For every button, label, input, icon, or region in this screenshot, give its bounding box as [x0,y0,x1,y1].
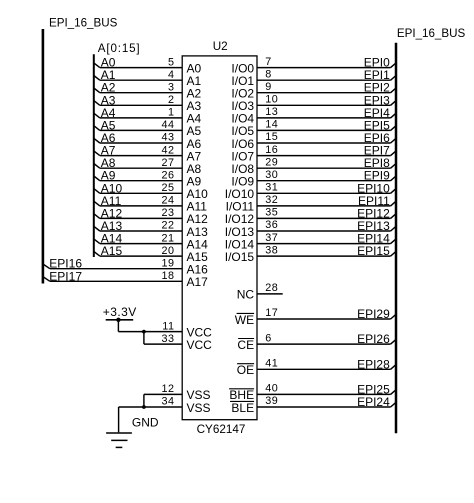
svg-text:16: 16 [265,144,278,156]
wire A5 [100,129,182,131]
svg-text:EPI26: EPI26 [357,332,390,346]
bus entry EPI13 [391,226,396,231]
wire EPI29 [257,318,391,320]
bus EPI_16_BUS (right vertical bus) [395,43,398,433]
bus entry EPI2 [391,88,396,93]
wire NC stub (pin 28, no connect) [257,293,283,295]
IC U2 body (CY62147 SRAM rectangle) [182,56,257,420]
wire GND drop [118,407,120,432]
svg-text:37: 37 [265,232,278,244]
svg-text:OE: OE [237,363,254,377]
svg-text:14: 14 [265,119,278,131]
svg-text:CY62147: CY62147 [197,423,246,436]
bus entry A12 [94,214,100,219]
bus entry EPI9 [391,176,396,181]
bus entry A5 [94,126,100,131]
wire EPI4 [257,117,391,119]
svg-text:15: 15 [265,131,278,143]
svg-text:U2: U2 [213,40,228,53]
svg-text:21: 21 [161,232,174,244]
bus entry EPI16 [43,264,50,269]
bus entry EPI4 [391,113,396,118]
svg-text:26: 26 [161,169,174,181]
ground GND symbol [106,433,132,447]
wire A0 [100,67,182,69]
pin name BLE (active low, overbar) inside chip [230,401,254,415]
wire EPI16 [50,268,182,270]
svg-text:1: 1 [168,107,175,119]
pin name BHE (active low, overbar) inside chip [229,388,254,402]
bus entry EPI3 [391,101,396,106]
wire EPI13 [257,230,391,232]
svg-text:EPI_16_BUS: EPI_16_BUS [397,27,466,40]
svg-text:2: 2 [168,94,175,106]
pin name CE (active low, overbar) inside chip [237,338,254,352]
bus entry EPI25 [391,390,396,395]
bus entry A6 [94,138,100,143]
svg-text:8: 8 [265,68,272,80]
svg-text:20: 20 [161,245,174,257]
svg-text:A[0:15]: A[0:15] [98,42,141,55]
wire EPI28 [257,368,391,370]
bus entry EPI24 [391,402,396,407]
wire A3 [100,104,182,106]
svg-text:11: 11 [162,320,174,332]
svg-text:29: 29 [265,156,278,168]
svg-text:28: 28 [265,282,278,294]
wire EPI8 [257,167,391,169]
wire VCC pin 33 [144,343,182,345]
svg-text:5: 5 [168,56,175,68]
svg-text:19: 19 [161,257,174,269]
wire EPI14 [257,243,391,245]
bus entry A1 [94,76,100,81]
bus entry A15 [94,251,100,256]
svg-text:43: 43 [161,132,174,144]
wire A14 [100,243,182,245]
bus entry EPI28 [391,365,396,370]
svg-text:GND: GND [132,415,159,429]
svg-text:4: 4 [168,69,175,81]
svg-text:32: 32 [265,194,278,206]
svg-text:24: 24 [161,195,174,207]
svg-text:EPI15: EPI15 [357,244,390,258]
wire EPI0 [257,67,391,69]
wire A2 [100,92,182,94]
wire VSS connector vertical [143,394,145,407]
bus entry A4 [94,113,100,118]
svg-text:9: 9 [265,81,272,93]
bus entry EPI8 [391,164,396,169]
bus entry EPI5 [391,126,396,131]
wire EPI9 [257,180,391,182]
svg-text:EPI17: EPI17 [49,269,82,283]
pin name WE (active low, overbar) inside chip [235,313,254,327]
wire +3.3V drop to VCC pin 11 [117,320,119,332]
bus entry A0 [94,63,100,68]
bus entry EPI15 [391,251,396,256]
wire VCC pin 11 [118,331,182,333]
wire EPI10 [257,192,391,194]
svg-text:EPI24: EPI24 [357,395,390,409]
wire EPI25 [257,393,391,395]
power +3.3V symbol [103,305,137,322]
svg-text:42: 42 [161,144,174,156]
junction VSS node [142,405,146,409]
svg-text:10: 10 [265,94,278,106]
svg-text:31: 31 [265,182,278,194]
bus entry A10 [94,189,100,194]
wire A13 [100,230,182,232]
svg-text:41: 41 [265,358,278,370]
bus A[0:15] (address bus vertical) [93,54,95,257]
svg-text:34: 34 [161,396,174,408]
svg-text:35: 35 [265,207,278,219]
bus entry A3 [94,101,100,106]
bus entry EPI1 [391,76,396,81]
bus entry EPI12 [391,214,396,219]
junction VCC node [142,330,146,334]
wire EPI6 [257,142,391,144]
bus entry EPI7 [391,151,396,156]
wire VSS pin 34 [119,406,183,408]
bus entry EPI26 [391,339,396,344]
svg-text:EPI_16_BUS: EPI_16_BUS [49,17,118,30]
wire A10 [100,192,182,194]
bus entry A13 [94,226,100,231]
wire EPI12 [257,217,391,219]
bus entry A11 [94,201,100,206]
svg-text:33: 33 [161,333,174,345]
bus entry EPI29 [391,314,396,319]
wire A9 [100,180,182,182]
svg-text:30: 30 [265,169,278,181]
wire A11 [100,205,182,207]
svg-text:A17: A17 [187,275,209,289]
svg-text:I/O15: I/O15 [225,250,255,264]
wire EPI3 [257,104,391,106]
svg-text:44: 44 [161,119,174,131]
svg-text:39: 39 [265,395,278,407]
wire EPI11 [257,205,391,207]
svg-text:3: 3 [168,81,175,93]
bus entry EPI14 [391,239,396,244]
wire A15 [100,255,182,257]
bus entry EPI17 [43,277,50,282]
wire EPI7 [257,155,391,157]
wire A7 [100,155,182,157]
svg-text:VSS: VSS [187,401,211,415]
bus entry A14 [94,239,100,244]
svg-text:EPI29: EPI29 [357,307,390,321]
svg-text:18: 18 [161,270,174,282]
wire A6 [100,142,182,144]
svg-text:12: 12 [161,383,174,395]
bus entry EPI10 [391,189,396,194]
svg-text:23: 23 [161,207,174,219]
wire EPI24 [257,406,391,408]
wire EPI5 [257,129,391,131]
bus EPI_16_BUS (left vertical bus) [42,29,45,284]
svg-text:7: 7 [265,56,272,68]
wire A1 [100,79,182,81]
wire EPI15 [257,255,391,257]
svg-text:17: 17 [265,307,278,319]
svg-text:40: 40 [265,383,278,395]
svg-text:22: 22 [161,220,174,232]
wire VCC connector vertical [143,332,145,345]
bus entry EPI0 [391,63,396,68]
wire EPI2 [257,92,391,94]
bus entry A9 [94,176,100,181]
svg-text:38: 38 [265,244,278,256]
svg-text:BLE: BLE [231,401,254,415]
svg-text:+3.3V: +3.3V [103,305,137,319]
svg-text:CE: CE [237,338,254,352]
wire EPI17 [50,280,182,282]
wire A8 [100,167,182,169]
svg-text:25: 25 [161,182,174,194]
wire A4 [100,117,182,119]
pin name OE (active low, overbar) inside chip [237,363,254,377]
bus entry EPI11 [391,201,396,206]
bus entry A8 [94,164,100,169]
wire EPI1 [257,79,391,81]
svg-text:NC: NC [237,288,255,302]
svg-text:36: 36 [265,219,278,231]
svg-text:WE: WE [235,313,254,327]
svg-text:EPI28: EPI28 [357,357,390,371]
wire A12 [100,217,182,219]
svg-text:A15: A15 [101,244,123,258]
bus entry EPI6 [391,138,396,143]
svg-text:13: 13 [265,106,278,118]
bus entry A2 [94,88,100,93]
bus entry A7 [94,151,100,156]
wire EPI26 [257,343,391,345]
svg-text:VCC: VCC [187,338,213,352]
svg-text:27: 27 [161,157,174,169]
wire VSS pin 12 [144,393,182,395]
svg-text:6: 6 [265,332,272,344]
